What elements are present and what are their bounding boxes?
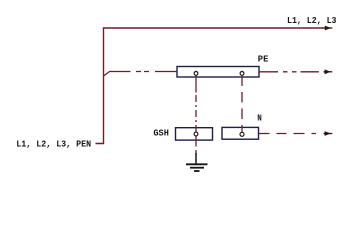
wire PE busbar to GSH busbar (solid lead) — [195, 76, 197, 93]
busbar PE — [177, 67, 259, 78]
wire N dashed (right of N busbar) — [259, 133, 317, 135]
svg-text:GSH: GSH — [153, 127, 169, 138]
wire PE busbar to GSH busbar (dash-dot) — [195, 95, 197, 128]
terminal on PE busbar (left) — [194, 72, 198, 76]
svg-text:L1, L2, L3: L1, L2, L3 — [287, 15, 337, 26]
terminal on GSH busbar — [194, 132, 198, 136]
wire PE dash-dot (right of busbar, dashes) — [283, 71, 319, 73]
ground stem — [195, 153, 197, 164]
wire PE dash-dot (left of busbar, solid lead) — [110, 71, 131, 73]
wire branch junction diagonal — [104, 72, 110, 77]
busbar N — [222, 127, 259, 139]
wire PE busbar to N busbar (dashed drop) — [241, 76, 243, 133]
wire PE dash-dot (right of busbar, solid lead) — [259, 71, 278, 73]
wire L1,L2,L3 feeder (PEN riser + top run) — [96, 28, 330, 144]
svg-text:PE: PE — [258, 53, 269, 64]
terminal on N busbar — [240, 132, 244, 136]
arrowhead PE (with short tail) — [324, 71, 333, 73]
terminal on PE busbar (right) — [240, 72, 244, 76]
svg-text:N: N — [257, 113, 262, 124]
svg-text:L1, L2, L3, PEN: L1, L2, L3, PEN — [16, 138, 91, 149]
arrowhead L1,L2,L3 — [327, 27, 333, 29]
busbar GSH — [176, 128, 213, 140]
wire through GSH busbar to earth — [195, 128, 197, 154]
arrowhead N (with short tail) — [324, 133, 333, 135]
ground symbol — [186, 163, 208, 165]
wire PE dash-dot (left of busbar, dashes) — [136, 71, 177, 73]
